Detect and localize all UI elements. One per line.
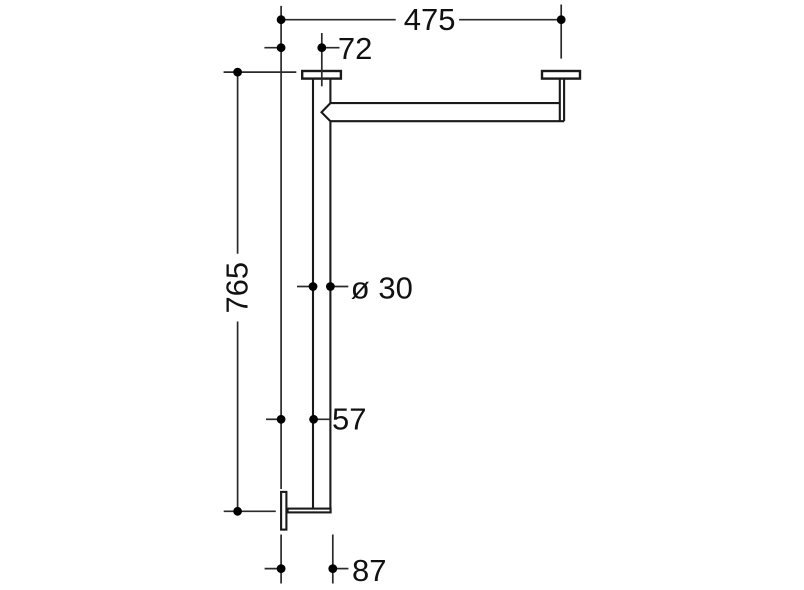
475 dimension line right part [459,19,561,21]
dot 475 right [557,15,566,24]
svg-text:765: 765 [220,262,255,314]
dia30 dash left [297,286,313,288]
dot 72 right [317,43,326,52]
horizontal arm top edge [330,102,559,104]
horizontal arm bottom edge [330,120,564,122]
765 bottom reference line [224,510,276,512]
outline group [281,71,580,530]
vertical tube right edge lower [329,121,331,512]
tube axis centerline [321,33,323,86]
dot dia30 right [326,282,335,291]
87 extension line right [332,535,334,584]
svg-text:ø 30: ø 30 [351,270,413,305]
wall axis extension line (left, lower) [280,535,282,584]
dot 765 top [233,68,242,77]
vertical tube right edge upper [329,79,331,103]
right stem left edge [559,79,561,121]
87 dash left [265,568,282,570]
svg-text:475: 475 [404,2,456,37]
dot 72 left [277,43,286,52]
87 dash right [333,568,349,570]
wall axis extension line (left, upper) [280,6,282,489]
dot 87 left [277,564,286,573]
right stem right edge [563,79,565,121]
dia30 dash right [330,286,348,288]
dot 87 right [328,564,337,573]
dots group [233,15,565,573]
bottom support bar [288,509,331,513]
svg-text:57: 57 [332,402,366,437]
svg-text:87: 87 [352,553,386,588]
vertical tube left edge [312,79,314,509]
72 dash left [264,47,281,49]
svg-text:72: 72 [338,31,372,66]
765 dimension line upper part [237,72,239,254]
dot dia30 left [309,282,318,291]
765 top reference line [224,71,297,73]
475 dimension line left part [281,19,396,21]
left wall flange [302,71,341,79]
57 dash right [314,418,332,420]
dot 765 bottom [233,507,242,516]
765 dimension line lower part [237,322,239,512]
57 dash left [266,418,281,420]
dot 475 left [277,15,286,24]
bottom flange [281,492,286,530]
right wall flange [542,71,580,79]
dimension group [224,5,562,584]
right flange extension line [560,5,562,59]
chevron notch at arm junction [322,103,331,121]
dot 57 right [309,415,318,424]
dot 57 left [277,415,286,424]
72 dash right [322,47,340,49]
